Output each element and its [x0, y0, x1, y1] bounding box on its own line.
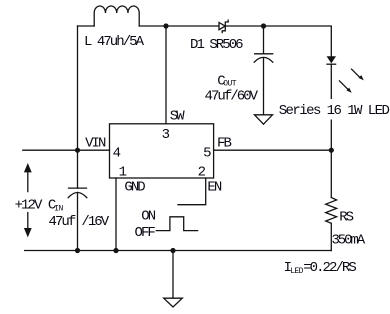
LED emission arrow 2 head: [346, 88, 351, 93]
svg-text:OUT: OUT: [223, 80, 236, 89]
ground symbol bottom: [164, 298, 183, 307]
LED triangle: [327, 56, 336, 63]
svg-text:350mA: 350mA: [332, 233, 366, 249]
wire: C_OUT bottom lead to ground: [263, 58, 265, 115]
svg-text:+12V: +12V: [15, 197, 43, 213]
wire: LED to Series-16 label gap: [330, 64, 332, 98]
svg-text:VIN: VIN: [85, 135, 106, 151]
junction dot: C_IN bottom rail: [75, 248, 80, 253]
svg-text:3: 3: [162, 127, 170, 143]
wire: C_OUT top lead: [263, 26, 265, 54]
wire: GND pin 1 to bottom rail: [115, 178, 117, 251]
diode D1 schottky cathode bar: [222, 20, 228, 32]
capacitor C_IN top plate: [69, 187, 87, 189]
+12V range arrow upper shaft: [27, 172, 29, 192]
junction dot: FB/LED/RS node: [329, 148, 334, 153]
wire: bottom rail: [25, 250, 332, 252]
wire: FB pin 5 to LED/RS node: [214, 149, 332, 151]
svg-text:GND: GND: [124, 179, 145, 195]
capacitor C_OUT top plate: [255, 53, 273, 55]
svg-text:47uf/60V: 47uf/60V: [205, 89, 259, 105]
svg-text:5: 5: [203, 146, 211, 162]
wire: top rail between inductor and diode: [139, 25, 219, 27]
junction dot: GND pin on bottom rail: [113, 248, 118, 253]
diode D1 triangle: [219, 23, 225, 30]
wire: SW pin 3 to top rail: [165, 26, 167, 124]
IC U1 body: [110, 124, 214, 178]
junction dot: inductor/SW node: [163, 23, 168, 28]
ground symbol under C_OUT: [255, 115, 273, 124]
resistor RS zigzag: [326, 198, 337, 224]
wire: top rail from diode to top-right corner and down to LED: [225, 26, 331, 56]
ON/OFF pulse waveform: [156, 217, 197, 231]
svg-text:/16V: /16V: [81, 214, 109, 230]
svg-text:OFF: OFF: [135, 225, 156, 241]
svg-text:SW: SW: [170, 109, 185, 125]
wire: VIN input to pin 4: [23, 149, 110, 151]
wire: left riser from top rail down to VIN node and C_IN: [77, 26, 79, 188]
svg-text:EN: EN: [207, 179, 221, 195]
LED emission arrow 1 head: [359, 75, 364, 80]
svg-text:LED: LED: [290, 267, 303, 276]
junction dot: ground stub on bottom rail: [170, 248, 175, 253]
wire: EN pin 2 lead: [178, 178, 206, 205]
svg-text:=0.22/RS: =0.22/RS: [303, 260, 356, 276]
LED cathode bar: [327, 63, 336, 65]
svg-text:D1 SR506: D1 SR506: [190, 37, 243, 53]
wire: below Series-16 label to FB node and resistor top: [330, 120, 332, 197]
inductor L coil: [94, 6, 139, 26]
svg-text:47uf: 47uf: [49, 214, 76, 230]
LED emission arrow 1 shaft: [351, 69, 360, 78]
junction dot: VIN node: [75, 148, 80, 153]
svg-text:RS: RS: [339, 209, 353, 225]
junction dot: diode/C_OUT node: [261, 23, 266, 28]
+12V arrow bottom head: [24, 228, 32, 237]
svg-text:IN: IN: [54, 205, 63, 214]
svg-text:Series 16 1W LED: Series 16 1W LED: [279, 103, 390, 119]
+12V range arrow lower shaft: [27, 213, 29, 229]
+12V arrow top head: [24, 163, 32, 172]
svg-text:FB: FB: [217, 136, 231, 152]
wire: ground stub on bottom rail: [172, 251, 174, 299]
wire: below C_IN down to bottom rail: [77, 192, 79, 250]
wire: resistor bottom to bottom rail corner: [330, 223, 332, 250]
capacitor C_OUT curved plate: [254, 57, 273, 62]
svg-text:L 47uh/5A: L 47uh/5A: [84, 34, 145, 50]
wire: top rail left stub: [78, 25, 95, 27]
svg-text:4: 4: [113, 146, 121, 162]
LED emission arrow 2 shaft: [339, 80, 348, 89]
svg-text:ON: ON: [141, 209, 155, 225]
capacitor C_IN curved plate: [68, 193, 87, 198]
